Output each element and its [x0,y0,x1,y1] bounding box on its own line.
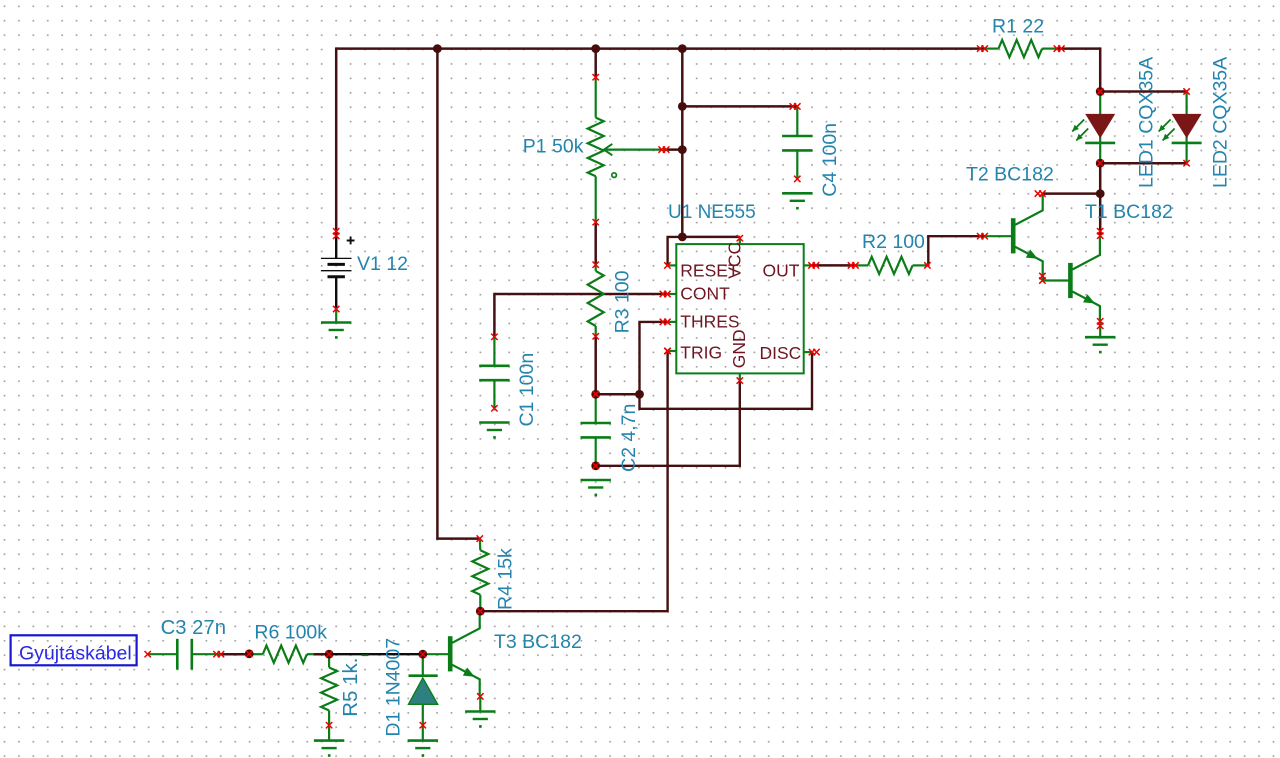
svg-text:THRES: THRES [680,312,739,332]
svg-text:V1 12: V1 12 [357,253,408,275]
svg-text:LED1 CQX35A: LED1 CQX35A [1136,57,1158,188]
svg-text:R4 15k: R4 15k [495,548,517,610]
svg-text:R3 100: R3 100 [611,270,633,333]
svg-text:LED2 CQX35A: LED2 CQX35A [1210,57,1232,188]
svg-text:Gyújtáskábel: Gyújtáskábel [19,643,132,665]
svg-text:C1 100n: C1 100n [516,353,538,427]
svg-text:C3 27n: C3 27n [161,617,226,639]
svg-text:DISC: DISC [759,343,801,363]
svg-text:R5 1k.: R5 1k. [339,658,362,717]
svg-text:VCC: VCC [724,242,744,279]
svg-text:D1 1N4007: D1 1N4007 [383,638,405,737]
svg-text:P1 50k: P1 50k [523,136,584,158]
svg-text:GND: GND [729,329,749,368]
svg-text:R6 100k: R6 100k [254,621,327,643]
svg-text:C4 100n: C4 100n [819,123,841,197]
svg-text:T2 BC182: T2 BC182 [966,164,1054,186]
svg-text:OUT: OUT [763,260,800,280]
svg-text:TRIG: TRIG [680,342,722,362]
svg-text:U1 NE555: U1 NE555 [668,202,756,223]
svg-text:R1 22: R1 22 [992,16,1044,38]
svg-text:CONT: CONT [680,283,730,303]
svg-text:C2 4,7n: C2 4,7n [618,404,640,472]
svg-text:R2 100: R2 100 [862,231,925,253]
svg-text:T1 BC182: T1 BC182 [1085,201,1173,223]
svg-text:T3 BC182: T3 BC182 [494,631,582,653]
